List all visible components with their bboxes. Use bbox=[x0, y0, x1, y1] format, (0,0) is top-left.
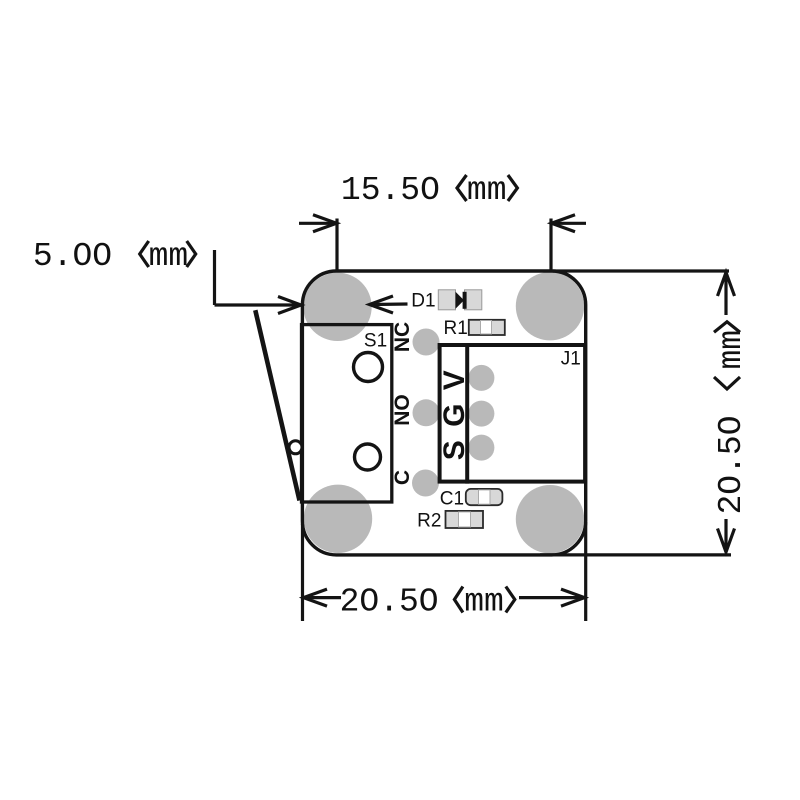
svg-text:mm: mm bbox=[149, 238, 189, 275]
svg-text:mm: mm bbox=[464, 584, 504, 621]
svg-text:mm: mm bbox=[713, 330, 750, 370]
svg-text:R2: R2 bbox=[417, 510, 441, 531]
svg-text:NO: NO bbox=[391, 394, 414, 426]
svg-text:C1: C1 bbox=[440, 488, 464, 509]
svg-text:mm: mm bbox=[467, 172, 507, 209]
svg-text:J1: J1 bbox=[561, 349, 581, 370]
svg-text:S G V: S G V bbox=[438, 368, 471, 461]
svg-text:C: C bbox=[391, 470, 414, 485]
svg-text:15.5O: 15.5O bbox=[341, 172, 440, 209]
svg-text:5.OO: 5.OO bbox=[33, 238, 112, 275]
svg-text:2O.5O: 2O.5O bbox=[340, 584, 439, 621]
svg-text:2O.5O: 2O.5O bbox=[713, 415, 750, 514]
svg-text:D1: D1 bbox=[411, 290, 435, 311]
svg-text:R1: R1 bbox=[444, 318, 468, 339]
svg-text:NC: NC bbox=[391, 322, 414, 352]
svg-text:S1: S1 bbox=[364, 330, 387, 351]
